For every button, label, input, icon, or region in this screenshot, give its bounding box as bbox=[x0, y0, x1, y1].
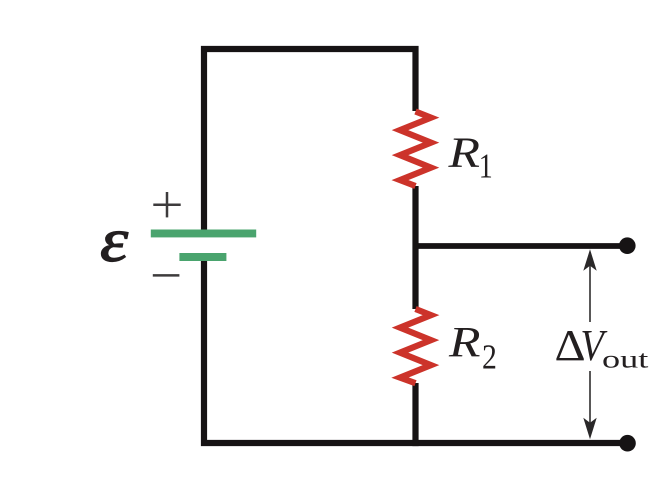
svg-text:ε: ε bbox=[100, 206, 129, 275]
svg-text:R: R bbox=[448, 319, 481, 366]
svg-text:1: 1 bbox=[479, 147, 493, 186]
svg-text:out: out bbox=[602, 345, 649, 373]
svg-text:R: R bbox=[447, 130, 480, 177]
svg-text:2: 2 bbox=[482, 338, 497, 377]
